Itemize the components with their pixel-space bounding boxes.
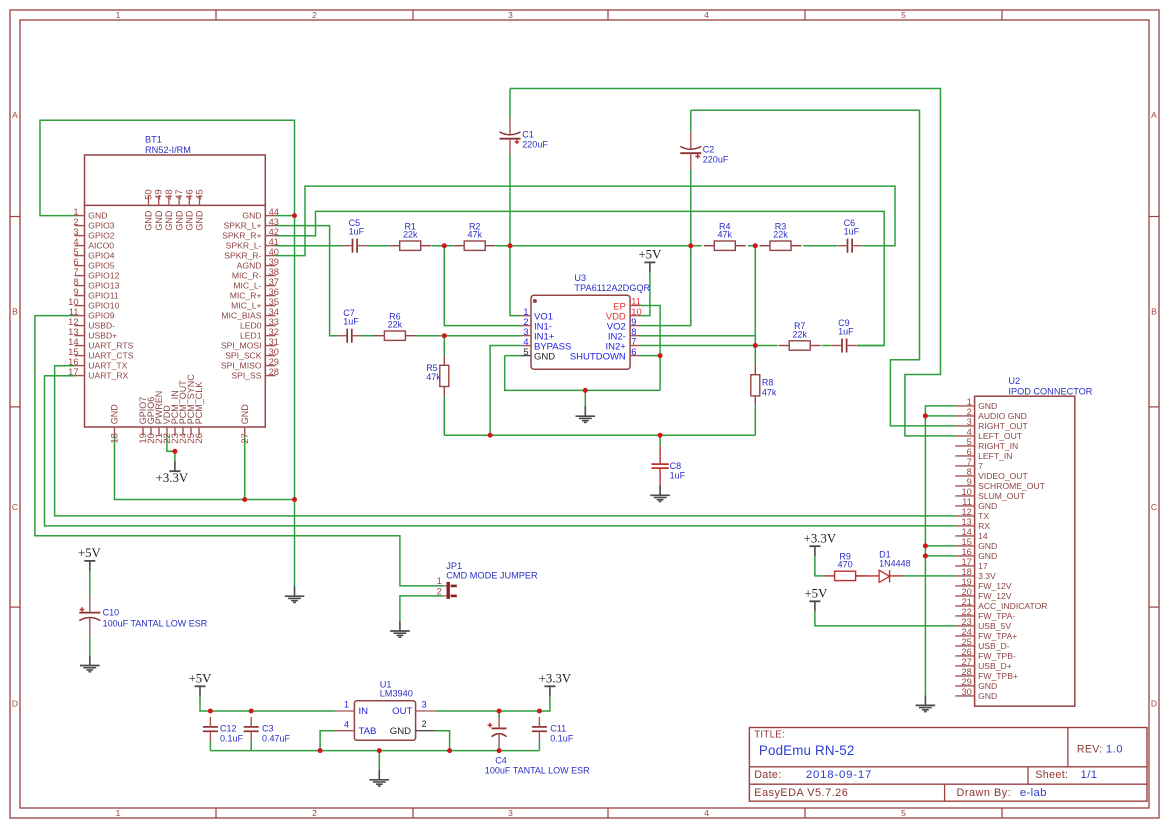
svg-text:Drawn By:: Drawn By: <box>957 787 1012 799</box>
svg-text:43: 43 <box>269 217 279 227</box>
svg-text:C10: C10 <box>103 608 120 618</box>
svg-text:20: 20 <box>961 587 971 597</box>
svg-text:B: B <box>12 307 18 317</box>
svg-text:GND: GND <box>978 541 997 551</box>
svg-text:220uF: 220uF <box>703 155 729 165</box>
svg-text:GND: GND <box>242 211 261 221</box>
svg-text:+3.3V: +3.3V <box>156 471 189 485</box>
svg-text:7: 7 <box>631 337 636 347</box>
svg-text:GND: GND <box>164 210 174 231</box>
svg-text:24: 24 <box>961 627 971 637</box>
svg-text:REV:: REV: <box>1077 743 1103 755</box>
svg-text:JP1: JP1 <box>446 561 462 571</box>
svg-text:D: D <box>1151 699 1157 709</box>
svg-text:39: 39 <box>269 257 279 267</box>
svg-text:A: A <box>1151 110 1157 120</box>
svg-text:SLUM_OUT: SLUM_OUT <box>978 491 1026 501</box>
svg-text:30: 30 <box>269 347 279 357</box>
svg-text:D: D <box>12 699 18 709</box>
svg-text:USB_D+: USB_D+ <box>978 661 1012 671</box>
svg-text:+5V: +5V <box>78 546 102 560</box>
svg-text:GND: GND <box>110 404 120 425</box>
svg-text:RIGHT_OUT: RIGHT_OUT <box>978 421 1028 431</box>
svg-text:USB_5V: USB_5V <box>978 621 1011 631</box>
svg-text:SPI_SCK: SPI_SCK <box>225 351 262 361</box>
svg-text:PodEmu RN-52: PodEmu RN-52 <box>759 743 855 758</box>
svg-text:22: 22 <box>961 607 971 617</box>
svg-text:2018-09-17: 2018-09-17 <box>806 769 872 781</box>
svg-text:GND: GND <box>240 404 250 425</box>
svg-text:3: 3 <box>523 327 528 337</box>
svg-text:15: 15 <box>961 537 971 547</box>
svg-text:SPKR_R+: SPKR_R+ <box>222 231 261 241</box>
svg-text:FW_TPA+: FW_TPA+ <box>978 631 1017 641</box>
svg-text:5: 5 <box>901 10 906 20</box>
svg-text:FW_12V: FW_12V <box>978 581 1012 591</box>
svg-text:1uF: 1uF <box>844 227 860 237</box>
svg-text:2: 2 <box>967 407 972 417</box>
svg-text:GND: GND <box>144 210 154 231</box>
svg-text:16: 16 <box>961 547 971 557</box>
svg-text:7: 7 <box>967 457 972 467</box>
svg-text:SPKR_L+: SPKR_L+ <box>224 221 262 231</box>
svg-text:GND: GND <box>978 681 997 691</box>
svg-text:Sheet:: Sheet: <box>1035 769 1068 781</box>
svg-text:SPKR_L-: SPKR_L- <box>226 241 262 251</box>
svg-text:31: 31 <box>269 337 279 347</box>
svg-text:GND: GND <box>88 211 107 221</box>
svg-text:MIC_L-: MIC_L- <box>233 281 261 291</box>
svg-text:6: 6 <box>73 257 78 267</box>
svg-text:SPI_SS: SPI_SS <box>231 371 261 381</box>
svg-text:LED1: LED1 <box>240 331 262 341</box>
svg-text:C: C <box>12 502 18 512</box>
svg-text:8: 8 <box>967 467 972 477</box>
svg-text:8: 8 <box>631 327 636 337</box>
svg-text:4: 4 <box>967 427 972 437</box>
svg-text:19: 19 <box>961 577 971 587</box>
svg-text:21: 21 <box>961 597 971 607</box>
svg-text:3: 3 <box>422 700 427 710</box>
svg-text:GND: GND <box>978 501 997 511</box>
svg-text:GPIO9: GPIO9 <box>88 311 114 321</box>
svg-text:1: 1 <box>73 207 78 217</box>
svg-text:3: 3 <box>508 808 513 818</box>
svg-text:17: 17 <box>68 367 78 377</box>
svg-text:0.1uF: 0.1uF <box>220 734 244 744</box>
svg-text:GND: GND <box>174 210 184 231</box>
svg-text:C: C <box>1151 502 1157 512</box>
svg-text:OUT: OUT <box>392 706 412 717</box>
svg-text:34: 34 <box>269 307 279 317</box>
svg-text:SCHROME_OUT: SCHROME_OUT <box>978 481 1046 491</box>
svg-text:C3: C3 <box>262 723 274 733</box>
svg-text:23: 23 <box>961 617 971 627</box>
svg-text:41: 41 <box>269 237 279 247</box>
svg-text:100uF TANTAL LOW ESR: 100uF TANTAL LOW ESR <box>485 766 590 776</box>
svg-text:3.3V: 3.3V <box>978 571 996 581</box>
svg-text:MIC_L+: MIC_L+ <box>231 301 261 311</box>
svg-text:11: 11 <box>962 497 972 507</box>
svg-text:LEFT_OUT: LEFT_OUT <box>978 431 1023 441</box>
svg-text:15: 15 <box>68 347 78 357</box>
svg-text:11: 11 <box>69 307 79 317</box>
svg-text:GND: GND <box>390 726 411 737</box>
svg-text:17: 17 <box>961 557 971 567</box>
svg-text:TITLE:: TITLE: <box>754 729 785 740</box>
svg-text:28: 28 <box>961 667 971 677</box>
svg-text:0.47uF: 0.47uF <box>262 734 291 744</box>
svg-text:AGND: AGND <box>237 261 262 271</box>
svg-text:GND: GND <box>978 401 997 411</box>
svg-text:29: 29 <box>961 677 971 687</box>
svg-text:22k: 22k <box>792 329 807 339</box>
svg-text:22k: 22k <box>403 230 418 240</box>
svg-text:10: 10 <box>961 487 971 497</box>
svg-text:33: 33 <box>269 317 279 327</box>
svg-text:GPIO4: GPIO4 <box>88 251 114 261</box>
svg-text:LM3940: LM3940 <box>380 689 413 699</box>
svg-text:GND: GND <box>185 210 195 231</box>
svg-text:12: 12 <box>961 507 971 517</box>
svg-text:RX: RX <box>978 521 990 531</box>
svg-text:2: 2 <box>73 217 78 227</box>
svg-text:7: 7 <box>73 267 78 277</box>
svg-text:35: 35 <box>269 297 279 307</box>
svg-text:1: 1 <box>437 576 442 586</box>
svg-text:47k: 47k <box>426 372 441 382</box>
svg-text:18: 18 <box>961 567 971 577</box>
svg-text:VIDEO_OUT: VIDEO_OUT <box>978 471 1028 481</box>
svg-text:FW_12V: FW_12V <box>978 591 1012 601</box>
svg-text:A: A <box>12 110 18 120</box>
svg-text:0.1uF: 0.1uF <box>550 734 574 744</box>
svg-text:22k: 22k <box>773 230 788 240</box>
svg-text:AICO0: AICO0 <box>88 241 114 251</box>
svg-text:CMD MODE JUMPER: CMD MODE JUMPER <box>446 571 538 581</box>
svg-text:GND: GND <box>195 210 205 231</box>
svg-text:FW_TPB-: FW_TPB- <box>978 651 1016 661</box>
svg-text:C2: C2 <box>703 144 715 154</box>
svg-text:29: 29 <box>269 357 279 367</box>
svg-text:14: 14 <box>978 531 988 541</box>
svg-text:R8: R8 <box>762 378 774 388</box>
svg-text:SPKR_R-: SPKR_R- <box>224 251 261 261</box>
svg-text:ACC_INDICATOR: ACC_INDICATOR <box>978 601 1047 611</box>
svg-text:RN52-I/RM: RN52-I/RM <box>145 145 191 155</box>
svg-text:UART_TX: UART_TX <box>88 361 127 371</box>
svg-text:UART_CTS: UART_CTS <box>88 351 133 361</box>
svg-text:SPI_MOSI: SPI_MOSI <box>221 341 262 351</box>
svg-text:5: 5 <box>901 808 906 818</box>
svg-text:EasyEDA V5.7.26: EasyEDA V5.7.26 <box>754 787 848 799</box>
svg-text:PCM_CLK: PCM_CLK <box>194 382 204 425</box>
svg-text:USB_D-: USB_D- <box>978 641 1010 651</box>
svg-text:3: 3 <box>73 227 78 237</box>
svg-text:1N4448: 1N4448 <box>879 559 911 569</box>
svg-text:2: 2 <box>523 317 528 327</box>
svg-text:TAB: TAB <box>359 726 377 737</box>
svg-text:4: 4 <box>704 10 709 20</box>
svg-text:4: 4 <box>344 719 349 729</box>
svg-text:28: 28 <box>269 367 279 377</box>
svg-text:6: 6 <box>967 447 972 457</box>
svg-text:4: 4 <box>73 237 78 247</box>
svg-text:47k: 47k <box>762 388 777 398</box>
svg-text:LEFT_IN: LEFT_IN <box>978 451 1012 461</box>
svg-text:1.0: 1.0 <box>1106 743 1123 755</box>
svg-text:27: 27 <box>240 433 251 444</box>
svg-text:4: 4 <box>704 808 709 818</box>
svg-text:2: 2 <box>422 719 427 729</box>
svg-text:5: 5 <box>523 347 528 357</box>
svg-text:12: 12 <box>68 317 78 327</box>
svg-text:GND: GND <box>978 551 997 561</box>
svg-text:USBD+: USBD+ <box>88 331 117 341</box>
svg-text:IPOD CONNECTOR: IPOD CONNECTOR <box>1008 386 1092 396</box>
svg-text:2: 2 <box>437 586 442 596</box>
svg-text:GND: GND <box>154 210 164 231</box>
svg-text:C1: C1 <box>522 130 534 140</box>
svg-text:GND: GND <box>978 691 997 701</box>
svg-text:1: 1 <box>116 10 121 20</box>
svg-text:3: 3 <box>967 417 972 427</box>
svg-text:27: 27 <box>961 657 971 667</box>
svg-text:45: 45 <box>195 189 206 200</box>
svg-text:RIGHT_IN: RIGHT_IN <box>978 441 1018 451</box>
svg-text:UART_RTS: UART_RTS <box>88 341 133 351</box>
svg-text:B: B <box>1151 307 1157 317</box>
svg-text:+3.3V: +3.3V <box>804 532 837 546</box>
svg-text:100uF TANTAL LOW ESR: 100uF TANTAL LOW ESR <box>103 618 208 628</box>
svg-text:SHUTDOWN: SHUTDOWN <box>570 352 626 363</box>
svg-text:13: 13 <box>961 517 971 527</box>
svg-text:1: 1 <box>116 808 121 818</box>
svg-text:22k: 22k <box>388 320 403 330</box>
svg-text:11: 11 <box>631 297 641 307</box>
svg-text:e-lab: e-lab <box>1020 787 1047 799</box>
svg-text:7: 7 <box>978 461 983 471</box>
svg-text:26: 26 <box>194 433 205 444</box>
svg-text:SPI_MISO: SPI_MISO <box>221 361 262 371</box>
svg-text:9: 9 <box>967 477 972 487</box>
svg-text:3: 3 <box>508 10 513 20</box>
svg-text:5: 5 <box>967 437 972 447</box>
svg-text:14: 14 <box>68 337 78 347</box>
svg-text:47k: 47k <box>467 230 482 240</box>
svg-text:220uF: 220uF <box>522 140 548 150</box>
svg-text:18: 18 <box>110 433 121 444</box>
svg-text:GPIO3: GPIO3 <box>88 221 114 231</box>
svg-text:37: 37 <box>269 277 279 287</box>
svg-text:FW_TPA-: FW_TPA- <box>978 611 1015 621</box>
svg-text:LED0: LED0 <box>240 321 262 331</box>
svg-text:+5V: +5V <box>638 248 662 262</box>
svg-text:U3: U3 <box>574 273 586 283</box>
svg-text:14: 14 <box>961 527 971 537</box>
svg-text:USBD-: USBD- <box>88 321 115 331</box>
svg-text:1uF: 1uF <box>670 471 686 481</box>
svg-text:GPIO2: GPIO2 <box>88 231 114 241</box>
svg-text:TX: TX <box>978 511 989 521</box>
svg-text:MIC_R-: MIC_R- <box>232 271 262 281</box>
svg-text:5: 5 <box>73 247 78 257</box>
svg-text:U2: U2 <box>1008 376 1020 386</box>
svg-text:Date:: Date: <box>754 769 781 781</box>
svg-text:2: 2 <box>312 10 317 20</box>
svg-text:C8: C8 <box>670 461 682 471</box>
svg-text:GPIO11: GPIO11 <box>88 291 119 301</box>
svg-text:AUDIO GND: AUDIO GND <box>978 411 1027 421</box>
svg-text:36: 36 <box>269 287 279 297</box>
svg-text:+5V: +5V <box>189 672 213 686</box>
svg-text:25: 25 <box>961 637 971 647</box>
svg-text:2: 2 <box>312 808 317 818</box>
svg-text:MIC_R+: MIC_R+ <box>230 291 262 301</box>
svg-text:FW_TPB+: FW_TPB+ <box>978 671 1018 681</box>
svg-text:9: 9 <box>631 317 636 327</box>
svg-text:C12: C12 <box>220 723 237 733</box>
svg-text:47k: 47k <box>718 230 733 240</box>
svg-text:1uF: 1uF <box>349 227 365 237</box>
svg-text:GPIO10: GPIO10 <box>88 301 119 311</box>
svg-text:9: 9 <box>73 287 78 297</box>
svg-text:470: 470 <box>838 560 853 570</box>
svg-text:16: 16 <box>68 357 78 367</box>
svg-text:44: 44 <box>269 207 279 217</box>
svg-text:13: 13 <box>68 327 78 337</box>
svg-text:40: 40 <box>269 247 279 257</box>
svg-text:6: 6 <box>631 347 636 357</box>
svg-text:1uF: 1uF <box>343 317 359 327</box>
svg-text:C11: C11 <box>550 723 566 733</box>
svg-text:4: 4 <box>523 337 528 347</box>
svg-text:TPA6112A2DGQR: TPA6112A2DGQR <box>574 283 650 293</box>
svg-text:MIC_BIAS: MIC_BIAS <box>221 311 261 321</box>
svg-text:IN: IN <box>359 706 369 717</box>
svg-text:+5V: +5V <box>804 587 828 601</box>
svg-text:GPIO13: GPIO13 <box>88 281 119 291</box>
svg-text:26: 26 <box>961 647 971 657</box>
svg-text:1: 1 <box>523 307 528 317</box>
svg-text:32: 32 <box>269 327 279 337</box>
svg-text:10: 10 <box>631 307 641 317</box>
svg-text:17: 17 <box>978 561 988 571</box>
svg-text:10: 10 <box>68 297 78 307</box>
svg-text:1: 1 <box>967 397 972 407</box>
svg-text:+3.3V: +3.3V <box>539 672 572 686</box>
svg-text:1/1: 1/1 <box>1081 769 1098 781</box>
svg-text:1: 1 <box>344 700 349 710</box>
svg-text:42: 42 <box>269 227 279 237</box>
svg-text:C4: C4 <box>495 755 507 765</box>
svg-text:30: 30 <box>961 687 971 697</box>
svg-text:GND: GND <box>534 352 555 363</box>
svg-text:38: 38 <box>269 267 279 277</box>
svg-text:GPIO5: GPIO5 <box>88 261 114 271</box>
svg-text:BT1: BT1 <box>145 135 162 145</box>
svg-text:8: 8 <box>73 277 78 287</box>
svg-text:1uF: 1uF <box>838 327 854 337</box>
svg-text:UART_RX: UART_RX <box>88 371 128 381</box>
svg-text:GPIO12: GPIO12 <box>88 271 119 281</box>
